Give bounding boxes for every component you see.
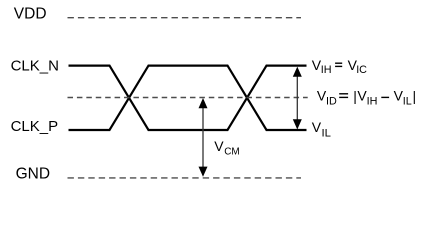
svg-text:V: V	[312, 119, 322, 135]
svg-text:GND: GND	[16, 166, 50, 183]
label VIH = VIC	[312, 57, 367, 76]
svg-text:|: |	[413, 88, 417, 104]
wire CLK_N waveform	[69, 66, 307, 130]
svg-text:VDD: VDD	[14, 6, 47, 23]
label VID = |VIH - VIL|	[317, 88, 416, 108]
svg-text:IH: IH	[321, 64, 332, 76]
GND rail dashed line	[68, 177, 302, 179]
label VCM	[214, 138, 239, 158]
svg-text:CLK_P: CLK_P	[11, 118, 59, 135]
svg-text:CLK_N: CLK_N	[11, 57, 59, 74]
label VIL	[312, 119, 331, 140]
svg-text:|: |	[353, 88, 357, 104]
node VIC common-mode dashed center line	[68, 97, 308, 99]
dimension arrow VCM (center line to GND)	[199, 98, 208, 177]
svg-text:IH: IH	[367, 96, 378, 108]
svg-text:ID: ID	[326, 96, 337, 108]
svg-text:IL: IL	[322, 128, 331, 140]
svg-text:V: V	[214, 138, 224, 154]
svg-text:IC: IC	[356, 64, 367, 76]
VDD rail dashed line	[68, 17, 302, 19]
dimension arrow VID (between VIH and VIL levels)	[293, 67, 302, 130]
wire CLK_P waveform	[69, 66, 307, 130]
svg-text:IL: IL	[403, 96, 412, 108]
svg-text:CM: CM	[224, 147, 240, 158]
